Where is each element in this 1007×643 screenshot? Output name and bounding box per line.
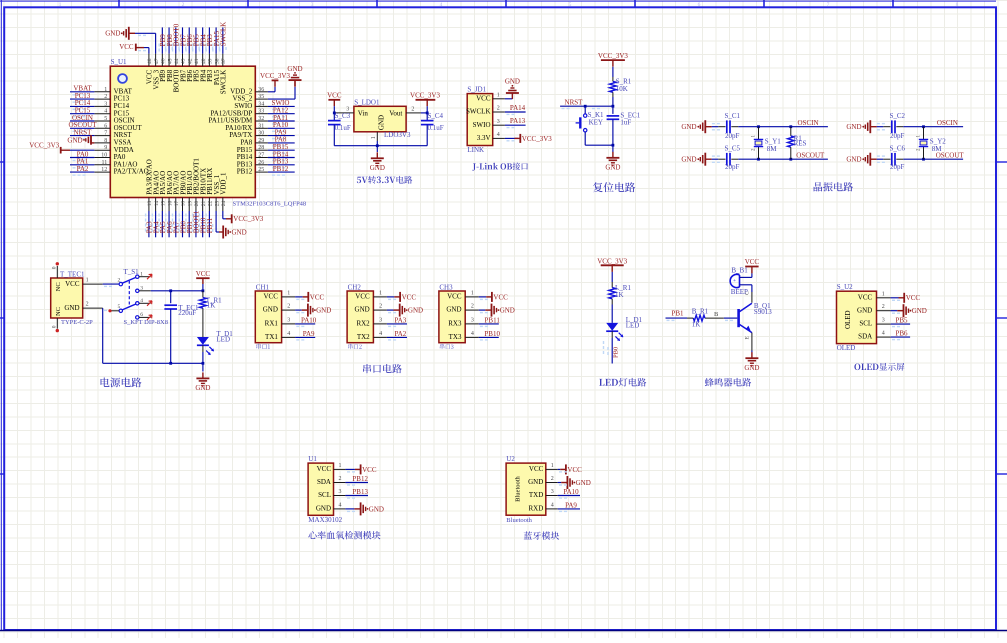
svg-text:B_R1: B_R1 (692, 308, 709, 316)
ground (612, 152, 614, 158)
U1 pin 14 (155, 198, 157, 212)
svg-text:CH2: CH2 (348, 283, 362, 291)
U1 pin 35 (255, 98, 268, 100)
svg-text:VCC: VCC (567, 466, 582, 474)
svg-text:34: 34 (258, 101, 264, 107)
wire / net PB5 (195, 27, 197, 53)
TEC1 pin 1 VCC (83, 283, 103, 285)
svg-text:4: 4 (440, 2, 443, 8)
U1 sensor pin 1 (334, 468, 346, 470)
svg-text:RXD: RXD (529, 505, 544, 513)
U1 pin 25 (255, 171, 268, 173)
svg-text:PA2: PA2 (77, 165, 89, 173)
svg-text:4: 4 (882, 331, 885, 337)
svg-text:KEY: KEY (589, 119, 603, 127)
svg-text:VCC_3V3: VCC_3V3 (410, 91, 440, 99)
wire (268, 98, 295, 100)
svg-text:4: 4 (339, 502, 342, 508)
svg-text:VCC_3V3: VCC_3V3 (597, 257, 627, 265)
svg-text:OSCIN: OSCIN (798, 119, 819, 127)
svg-text:1: 1 (104, 87, 107, 93)
wire / ground (558, 482, 562, 484)
wire / net flag VCC (479, 296, 487, 298)
ground (302, 309, 308, 311)
svg-text:S_U2: S_U2 (837, 283, 853, 291)
svg-text:31: 31 (258, 123, 264, 129)
svg-text:1: 1 (86, 278, 89, 284)
svg-text:VCC_3V3: VCC_3V3 (29, 141, 59, 149)
CH3 pin 1 (465, 296, 479, 298)
wire / net PA10 (558, 495, 580, 497)
wire (877, 158, 884, 160)
svg-text:SDA: SDA (317, 478, 331, 486)
crystal circuit 1 (681, 112, 828, 171)
crystal circuit 2 (846, 112, 964, 171)
wire / net PB9 (161, 27, 163, 53)
net flag VCC_3V3 (519, 134, 521, 143)
U1 pin 8 (94, 142, 110, 144)
wire (611, 305, 613, 323)
svg-text:20pF: 20pF (890, 163, 905, 171)
U1 pin 3 (94, 105, 110, 107)
svg-text:2: 2 (117, 277, 120, 283)
svg-text:26: 26 (258, 160, 264, 166)
wire bottom rail (334, 145, 427, 147)
capacitor S_C6 (883, 158, 890, 160)
svg-text:4: 4 (551, 502, 554, 508)
svg-text:6: 6 (104, 123, 107, 129)
wire (712, 126, 719, 128)
svg-text:3: 3 (551, 489, 554, 495)
U1 pin 36 (255, 91, 268, 93)
svg-text:40: 40 (201, 58, 207, 64)
U LDO pin 3 (334, 112, 354, 114)
U1 pin 44 (175, 54, 177, 67)
svg-text:3: 3 (104, 101, 107, 107)
CH1 pin 4 (282, 336, 296, 338)
svg-text:S_C5: S_C5 (725, 144, 741, 152)
wire / net PB6 (891, 336, 911, 338)
svg-text:2: 2 (182, 2, 185, 8)
U1 pin 2 (94, 98, 110, 100)
CH2 pin 4 (373, 336, 387, 338)
U1 pin 11 (94, 164, 110, 166)
crystal (757, 125, 760, 128)
svg-text:41: 41 (194, 58, 200, 64)
svg-text:S_C6: S_C6 (890, 144, 906, 152)
wire / ground (295, 309, 302, 311)
svg-text:GND: GND (408, 307, 423, 315)
module U2 Bluetooth (506, 455, 591, 540)
wire / net PA9 (295, 336, 315, 338)
svg-text:CH1: CH1 (256, 283, 270, 291)
U1 pin 37 (222, 54, 224, 67)
U1 pin 38 (215, 54, 217, 67)
svg-text:PB12: PB12 (352, 475, 368, 483)
U1 pin 27 (255, 157, 268, 159)
svg-text:GND: GND (355, 306, 370, 314)
svg-text:25: 25 (258, 167, 264, 173)
JD1 pin 4 (493, 137, 505, 139)
svg-text:S_C4: S_C4 (428, 112, 444, 120)
net flag VCC (196, 277, 209, 279)
svg-text:RX2: RX2 (356, 320, 370, 328)
svg-text:3: 3 (287, 317, 290, 323)
LED L_D1 (606, 323, 618, 331)
svg-text:PA14: PA14 (510, 104, 526, 112)
svg-text:VCC: VCC (327, 91, 342, 99)
net flag VCC (328, 99, 340, 101)
svg-text:LED: LED (626, 321, 640, 329)
sensor U1 MAX30102 (308, 455, 384, 539)
U1 pin 6 (94, 127, 110, 129)
svg-text:1uF: 1uF (620, 119, 631, 127)
svg-text:6: 6 (698, 2, 701, 8)
U1 sensor pin 2 (334, 482, 346, 484)
svg-text:2: 2 (411, 107, 414, 113)
U1 pin 40 (202, 54, 204, 67)
wire / net PC14 (70, 105, 94, 107)
svg-text:39: 39 (208, 58, 214, 64)
CH2 pin 1 (373, 296, 387, 298)
U1 pin 45 (168, 54, 170, 67)
wire / net NRST (560, 105, 613, 107)
svg-text:T_TEC1: T_TEC1 (60, 270, 85, 278)
svg-text:TX3: TX3 (449, 333, 462, 341)
svg-text:2: 2 (497, 106, 500, 112)
connector S_JD1 J-Link (466, 78, 552, 171)
svg-text:7: 7 (104, 131, 107, 137)
U1 pin 10 (94, 157, 110, 159)
svg-text:MAX30102: MAX30102 (308, 516, 342, 524)
resistor B_R1 1K (705, 317, 724, 319)
wire / net PA15 (215, 27, 217, 53)
U2 module pin 2 (546, 482, 558, 484)
U1 pin 32 (255, 120, 268, 122)
svg-text:4: 4 (497, 132, 500, 138)
wire / net PA10 (268, 127, 295, 129)
svg-text:TX1: TX1 (265, 333, 278, 341)
svg-text:24: 24 (221, 201, 227, 207)
resistor L_R1 (609, 288, 616, 299)
svg-text:GND: GND (64, 304, 79, 312)
svg-text:36: 36 (258, 87, 264, 93)
U1 pin 16 (168, 198, 170, 212)
svg-text:OSCOUT: OSCOUT (796, 151, 825, 159)
MCU S_U1 STM32F103C8T6 (29, 22, 306, 239)
svg-text:PA9: PA9 (565, 501, 577, 509)
svg-text:STM32F103C8T6_LQFP48: STM32F103C8T6_LQFP48 (233, 200, 307, 207)
wire / net PC15 (70, 113, 94, 115)
svg-text:GND: GND (681, 123, 696, 131)
wire / net PB0 (611, 338, 613, 364)
svg-text:Vout: Vout (389, 109, 402, 117)
net flag VCC_3V3 (416, 99, 436, 101)
svg-text:GND: GND (105, 30, 120, 38)
svg-text:PA10: PA10 (301, 316, 317, 324)
resistor T_R1 1K (202, 291, 204, 298)
svg-text:U2: U2 (506, 455, 515, 463)
wire (612, 97, 614, 106)
connector T_TEC1 TYPE-C (51, 278, 83, 318)
wire / net PB7 (182, 27, 184, 53)
U1 pin 26 (255, 164, 268, 166)
svg-text:GND: GND (263, 306, 278, 314)
svg-text:GND: GND (195, 384, 210, 392)
svg-text:GND: GND (846, 123, 861, 131)
U1 pin 39 (208, 54, 210, 67)
svg-text:35: 35 (258, 94, 264, 100)
wire / net BOOT1 (195, 211, 197, 237)
wire / net SWCLK (222, 27, 224, 53)
svg-text:3: 3 (311, 2, 314, 8)
svg-text:VDD_1: VDD_1 (220, 172, 228, 195)
svg-text:S_LDO1: S_LDO1 (354, 98, 380, 106)
resistor B_R1 (693, 315, 705, 321)
svg-text:0: 0 (52, 266, 58, 269)
U1 pin 33 (255, 113, 268, 115)
U2 module pin 4 (546, 508, 558, 510)
svg-text:17: 17 (174, 201, 180, 207)
svg-text:8: 8 (956, 2, 959, 8)
regulator S_LDO1 LDO3V3 (327, 91, 444, 183)
svg-text:VCC: VCC (65, 280, 80, 288)
U1 pin 42 (188, 54, 190, 67)
svg-text:20pF: 20pF (890, 132, 905, 140)
svg-text:GND: GND (681, 156, 696, 164)
svg-text:5: 5 (569, 2, 572, 8)
CH1 pin 1 (282, 296, 296, 298)
U2 OLED pin 3 (877, 323, 891, 325)
wire / net PA9 (558, 508, 580, 510)
svg-text:U1: U1 (308, 455, 317, 463)
wire (877, 126, 884, 128)
svg-text:VCC: VCC (745, 258, 760, 266)
svg-text:4: 4 (287, 331, 290, 337)
wire (738, 126, 828, 128)
wire / ground (387, 309, 394, 311)
svg-text:1K: 1K (615, 291, 624, 299)
svg-text:PA13: PA13 (510, 117, 526, 125)
svg-text:RES: RES (794, 139, 807, 147)
svg-text:GND: GND (67, 136, 82, 144)
svg-text:VCC: VCC (263, 293, 278, 301)
power circuit (51, 262, 234, 392)
capacitor S_EC1 (612, 106, 614, 114)
buzzer circuit (666, 258, 773, 386)
svg-text:GND: GND (846, 156, 861, 164)
svg-text:NRST: NRST (565, 98, 584, 106)
capacitor S_C1 (718, 126, 725, 128)
svg-text:GND: GND (912, 307, 927, 315)
wire / net PA8 (268, 142, 295, 144)
U1 sensor pin 4 (334, 508, 346, 510)
U1 pin 21 (202, 198, 204, 212)
svg-text:3: 3 (471, 317, 474, 323)
connector CH3 (439, 283, 515, 349)
svg-text:2: 2 (551, 476, 554, 482)
svg-text:SDA: SDA (858, 333, 872, 341)
svg-text:28: 28 (258, 145, 264, 151)
net flag VCC_3V3 (VDD_1 pin 24) (222, 211, 224, 219)
svg-text:VCC: VCC (476, 94, 491, 102)
svg-text:VCC: VCC (858, 293, 873, 301)
svg-text:3: 3 (497, 119, 500, 125)
svg-text:VCC: VCC (447, 293, 462, 301)
CH3 pin 3 (465, 323, 479, 325)
svg-text:18: 18 (181, 201, 187, 207)
svg-text:VCC: VCC (402, 293, 417, 301)
wire / net PB4 (202, 27, 204, 53)
svg-text:OSCOUT: OSCOUT (936, 151, 965, 159)
CH1 pin 3 (282, 323, 296, 325)
U1 pin 20 (195, 198, 197, 212)
svg-text:VCC: VCC (310, 293, 325, 301)
U1 pin 5 (94, 120, 110, 122)
U1 pin 48 (148, 54, 150, 67)
wire emitter to gnd (751, 351, 753, 353)
svg-text:TYPE-C-2P: TYPE-C-2P (61, 319, 93, 326)
ground (VSSA pin 8) (91, 142, 94, 144)
TEC1 pin 2 GND (83, 307, 103, 309)
svg-text:VCC_3V3: VCC_3V3 (260, 72, 290, 80)
svg-text:TX2: TX2 (357, 333, 370, 341)
crystal (922, 125, 925, 128)
svg-text:C: C (745, 291, 751, 295)
display S_U2 OLED (837, 283, 927, 371)
wire / net PA3 (148, 211, 150, 237)
svg-text:4: 4 (104, 109, 107, 115)
net flag VCC_3V3 (601, 264, 624, 266)
resistor (200, 298, 207, 309)
svg-text:LED: LED (216, 335, 230, 343)
svg-text:Vin: Vin (358, 109, 369, 117)
wire / net PB15 (268, 149, 295, 151)
CH3 pin 2 (465, 309, 479, 311)
svg-text:SWCLK: SWCLK (220, 22, 228, 47)
wire / net PB3 (208, 27, 210, 53)
wire / net PA0 (70, 157, 94, 159)
resistor R1 RES (789, 125, 792, 128)
JD1 pin 1 (493, 98, 505, 100)
svg-text:3: 3 (379, 317, 382, 323)
wire (421, 112, 427, 114)
wire (712, 158, 719, 160)
svg-text:9: 9 (104, 145, 107, 151)
wire / net PB12 (345, 482, 368, 484)
svg-text:VCC: VCC (906, 294, 921, 302)
U1 pin 31 (255, 127, 268, 129)
ground (485, 309, 491, 311)
svg-text:SCL: SCL (859, 320, 872, 328)
svg-text:2: 2 (86, 302, 89, 308)
svg-text:GND: GND (316, 307, 331, 315)
svg-text:10K: 10K (616, 85, 628, 93)
ground (376, 152, 378, 158)
ground (897, 310, 903, 312)
svg-text:1: 1 (339, 463, 342, 469)
svg-text:GND: GND (369, 505, 384, 513)
svg-text:1: 1 (882, 291, 885, 297)
wire / net PB12 (268, 171, 295, 173)
svg-text:VCC_3V3: VCC_3V3 (522, 135, 552, 143)
wire / net PB0 (182, 211, 184, 237)
svg-text:S_C2: S_C2 (890, 112, 906, 120)
svg-text:LINK: LINK (467, 146, 484, 154)
wire (505, 98, 513, 100)
svg-text:1: 1 (140, 271, 143, 277)
svg-text:20pF: 20pF (725, 163, 740, 171)
wire / net PA6 (168, 211, 170, 237)
wire / ground (891, 310, 898, 312)
svg-text:27: 27 (258, 153, 264, 159)
svg-text:VCC: VCC (362, 466, 377, 474)
svg-text:S_U1: S_U1 (111, 58, 127, 66)
capacitor T_EC1 220uF (170, 291, 172, 303)
svg-text:30: 30 (258, 131, 264, 137)
svg-text:PA3: PA3 (394, 316, 406, 324)
svg-text:19: 19 (187, 201, 193, 207)
svg-text:CH3: CH3 (439, 283, 453, 291)
svg-text:0: 0 (52, 325, 58, 328)
svg-text:8M: 8M (767, 145, 778, 153)
wire / net BOOT0 (175, 27, 177, 53)
wire / ground (479, 309, 486, 311)
reset circuit (560, 52, 641, 192)
U1 pin 4 (94, 113, 110, 115)
ground (pin 47) (155, 33, 157, 53)
svg-text:GND: GND (576, 479, 591, 487)
svg-text:3: 3 (882, 318, 885, 324)
svg-text:1: 1 (287, 290, 290, 296)
U2 OLED pin 4 (877, 336, 891, 338)
wire / net PA13 (505, 124, 526, 126)
wire / net PA2 (387, 336, 407, 338)
svg-text:VCC: VCC (196, 270, 211, 278)
capacitor S_C3 (328, 120, 341, 122)
wire (426, 125, 428, 146)
svg-text:GND: GND (287, 65, 302, 73)
U1 pin 9 (94, 149, 110, 151)
U1 pin 28 (255, 149, 268, 151)
wire (903, 158, 963, 160)
svg-text:OSCIN: OSCIN (937, 119, 958, 127)
svg-text:PA10: PA10 (563, 488, 579, 496)
wire (612, 119, 614, 145)
svg-text:RX1: RX1 (265, 320, 279, 328)
wire (202, 352, 204, 363)
wire (903, 126, 963, 128)
wire / net PA10 (295, 323, 315, 325)
svg-text:1: 1 (371, 136, 377, 139)
U1 pin 13 (148, 198, 150, 212)
svg-text:NC: NC (55, 307, 62, 316)
svg-text:S_JD1: S_JD1 (467, 85, 486, 93)
svg-text:4: 4 (140, 298, 143, 304)
CH1 pin 2 (282, 309, 296, 311)
svg-text:PA2/TX/AO: PA2/TX/AO (114, 168, 149, 176)
svg-text:16: 16 (167, 201, 173, 207)
U1 pin 29 (255, 142, 268, 144)
svg-text:GND: GND (446, 306, 461, 314)
svg-text:GND: GND (744, 364, 759, 372)
wire (103, 283, 119, 285)
JD1 pin 2 (493, 111, 505, 113)
U1 pin 1 (94, 91, 110, 93)
capacitor S_C4 (421, 120, 434, 122)
wire / net PB13 (268, 164, 295, 166)
wire / net flag VCC (891, 297, 899, 299)
